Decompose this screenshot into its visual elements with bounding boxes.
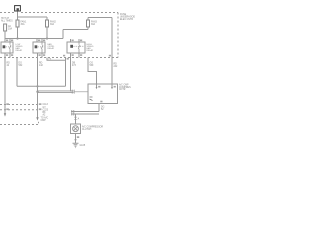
clutch coil X <box>74 127 78 131</box>
wire x88 below fuse block with jog <box>88 58 97 85</box>
relay K3 pins top <box>71 39 80 42</box>
battery feed terminal box B+ <box>15 6 21 11</box>
fuse F1 wire below <box>4 31 6 39</box>
svg-text:RELAY: RELAY <box>16 49 23 52</box>
supply bus y38.5 <box>5 38 63 40</box>
svg-text:FAN1: FAN1 <box>21 21 27 24</box>
svg-text:A/C COMPRESSOR: A/C COMPRESSOR <box>82 126 103 129</box>
junction dot bus x47 <box>46 37 48 39</box>
wire below clutch <box>75 134 77 140</box>
relay K1 actuation dashes <box>6 46 15 48</box>
relay K2 box <box>33 42 45 53</box>
svg-text:FAN3: FAN3 <box>91 21 97 24</box>
relay K1 pins top <box>5 39 10 43</box>
arrowhead pin x112 <box>111 87 113 89</box>
fuse F4 body (x88 column) <box>87 20 90 27</box>
pin label x65 <box>63 55 65 57</box>
relay K3 box <box>67 42 85 53</box>
pin label x112 <box>109 55 111 57</box>
connector arrow x37.5 <box>36 117 38 120</box>
H2 continuation light <box>75 91 89 93</box>
pin label inside box x112 <box>114 86 116 88</box>
svg-text:G105: G105 <box>80 145 86 147</box>
clutch drop wire <box>75 114 77 124</box>
wire bus y17 to fuse2 <box>18 16 48 18</box>
svg-text:FAN2: FAN2 <box>50 21 56 24</box>
fuse F3 wire below <box>46 27 48 39</box>
arrowhead pin x96.5 <box>96 87 98 89</box>
ground G1 symbol <box>73 140 79 148</box>
pin label x5 connector <box>6 103 9 105</box>
junction dot bus x17 <box>16 37 18 39</box>
pin label x37 band lower <box>39 108 42 110</box>
relay K2 contact <box>41 42 43 53</box>
fuse F2 body (x17 column) <box>16 20 19 27</box>
horizontal wire H2 upper <box>38 90 74 92</box>
svg-text:30A: 30A <box>91 23 96 26</box>
svg-text:10A: 10A <box>8 28 13 31</box>
svg-text:RELAY: RELAY <box>87 49 94 52</box>
fuse F4 wire below to elbow <box>87 27 89 30</box>
relay K2 pins top <box>37 39 42 43</box>
wire x37.5 tail <box>37 110 39 118</box>
svg-text:RELAY: RELAY <box>48 47 55 50</box>
fuse F3 body (x47 column) <box>46 20 49 27</box>
wire fuse2 drop <box>46 17 48 20</box>
tiny pin labels <box>6 40 116 139</box>
pin label inside box x96.5 <box>98 86 100 88</box>
wire x47 stub below fuse block elbow right <box>47 58 66 61</box>
relay K3 coil <box>70 45 73 48</box>
svg-text:DB: DB <box>72 63 76 65</box>
pin label x37 band upper2 <box>39 103 42 105</box>
wire x70.5 below fuse block <box>70 58 72 92</box>
relay K3 contact <box>78 42 80 53</box>
pin label clutch top <box>77 136 79 138</box>
pair wire line1 <box>71 111 99 113</box>
box bottom pin wire <box>98 104 100 112</box>
svg-text:DG: DG <box>19 63 23 65</box>
relay K1 coil <box>3 45 6 48</box>
relay K1 box <box>1 42 13 53</box>
connector band dashed line 2 <box>0 109 38 111</box>
svg-text:CNTR: CNTR <box>119 89 126 91</box>
relay K2 actuation dashes <box>38 46 47 48</box>
relay K1 contact <box>9 42 11 53</box>
svg-text:RD: RD <box>39 63 43 65</box>
wire x17 below fuse block to elbow <box>16 58 18 87</box>
connector tick below clutch <box>74 139 76 141</box>
wire x65.5 below fuse block <box>65 58 67 87</box>
junction dot H1 x37 <box>36 85 38 87</box>
pin label box bottom x99 <box>100 101 102 103</box>
svg-text:30A: 30A <box>50 23 55 26</box>
wire elbow y29.5 <box>63 29 88 31</box>
dashed stub up at band right end <box>38 122 40 125</box>
pin label x65.5 <box>67 58 69 60</box>
svg-text:OG: OG <box>90 63 94 65</box>
wire x5 below fuse block <box>4 58 6 111</box>
connector band dashed line 1 <box>0 104 38 106</box>
horizontal wire H2 lower <box>38 92 74 94</box>
underhood fuse block dashed boundary top <box>0 12 118 14</box>
relay K1 pins bottom <box>5 53 10 58</box>
junction dot H2 x37 <box>36 91 38 93</box>
clutch drop connector ticks <box>74 117 76 119</box>
svg-text:CLUTCH: CLUTCH <box>82 129 92 131</box>
svg-text:RD: RD <box>7 63 11 65</box>
pin labels relay K3 <box>72 40 74 42</box>
clutch coil circle <box>73 126 79 132</box>
relay K2 coil <box>35 45 38 48</box>
pin labels relay K1 <box>6 40 8 42</box>
relay K2 pins bottom <box>38 53 43 58</box>
svg-text:HOT AT: HOT AT <box>1 17 10 20</box>
battery terminal inner mark <box>17 8 19 10</box>
horizontal wire H1 <box>17 85 66 87</box>
pin labels relay K2 <box>38 40 40 42</box>
wire x63 drop to bus <box>62 30 64 39</box>
pin label x5 band lower <box>6 108 9 110</box>
relay K3 pins bottom <box>71 53 80 58</box>
svg-text:ELEC CNTR: ELEC CNTR <box>120 19 133 21</box>
svg-text:30A: 30A <box>21 23 26 26</box>
svg-text:CMP: CMP <box>41 120 47 122</box>
svg-text:AC: AC <box>8 25 12 28</box>
fuse F2 wire below <box>17 27 19 39</box>
wire x37.5 below fuse block <box>37 58 39 111</box>
wire x112 feed down <box>111 18 113 85</box>
relay K3 actuation dashes <box>74 45 86 47</box>
connector arrow x5 <box>4 113 6 116</box>
pair wire line2 <box>71 113 99 115</box>
wire into box pin x112 <box>111 84 113 87</box>
underhood fuse block dashed boundary right <box>117 13 119 58</box>
underhood fuse block dashed boundary bottom <box>0 57 118 59</box>
wire x88 drop to fuse3 <box>87 18 89 21</box>
bottom dashed boundary <box>0 124 38 126</box>
wire y17 segment right to x112 <box>88 17 112 19</box>
svg-text:RD: RD <box>114 64 118 66</box>
A/C compressor component box <box>88 84 118 104</box>
svg-text:DG: DG <box>101 107 105 109</box>
svg-text:TO A/C: TO A/C <box>41 117 49 120</box>
wire from battery box down <box>17 12 19 21</box>
inline connector ticks on H2 <box>72 90 74 94</box>
wire x5 tail <box>4 110 6 114</box>
wire into box pin x96.5 <box>96 84 98 87</box>
fuse F1 (left) body <box>4 24 7 31</box>
box internal switch symbol <box>90 97 93 101</box>
text labels <box>1 14 135 147</box>
svg-text:ALL TIMES: ALL TIMES <box>1 20 13 23</box>
pair connector ticks <box>72 110 74 116</box>
A/C compressor clutch box <box>71 124 81 134</box>
